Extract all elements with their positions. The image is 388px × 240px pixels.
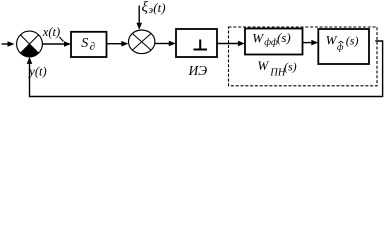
svg-text:y(t): y(t)	[27, 65, 46, 79]
svg-text:фф: фф	[264, 37, 278, 48]
svg-text:ф: ф	[337, 42, 344, 52]
svg-text:x(t): x(t)	[42, 25, 60, 39]
svg-text:∂: ∂	[90, 41, 95, 53]
svg-text:(s): (s)	[346, 33, 359, 47]
svg-text:W: W	[252, 31, 264, 46]
svg-text:(s): (s)	[277, 30, 291, 45]
svg-text:ИЭ: ИЭ	[188, 63, 208, 78]
svg-text:W: W	[257, 58, 269, 73]
svg-text:(s): (s)	[284, 59, 297, 73]
svg-text:S: S	[81, 36, 88, 51]
svg-text:(t): (t)	[153, 0, 165, 15]
svg-text:W: W	[326, 33, 338, 48]
svg-text:ξ: ξ	[142, 0, 149, 16]
